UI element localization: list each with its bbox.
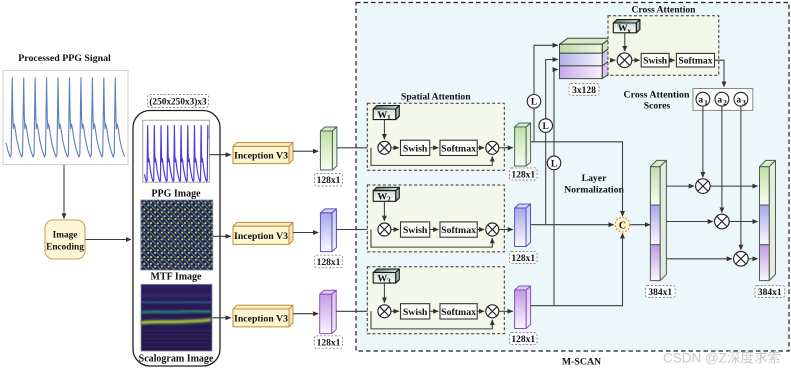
svg-text:W: W [377, 273, 387, 284]
svg-text:Normalization: Normalization [564, 185, 624, 196]
svg-text:Cross Attention: Cross Attention [631, 5, 696, 16]
svg-text:128x1: 128x1 [317, 176, 341, 186]
svg-text:Inception V3: Inception V3 [234, 314, 288, 325]
block Swish (attention 1) [401, 140, 430, 155]
svg-text:Softmax: Softmax [441, 225, 476, 236]
svg-text:128x1: 128x1 [317, 258, 341, 268]
svg-text:Swish: Swish [403, 225, 428, 236]
feature bar F3 (purple 128x1) [320, 290, 337, 333]
block Inception V3 (1) [233, 143, 293, 164]
stacked tensor 3x128 [560, 38, 611, 78]
svg-text:Softmax: Softmax [678, 56, 712, 67]
block Swish (cross attention) [641, 53, 669, 67]
wire L3 to stack slab 3 [554, 70, 558, 156]
score a3 [734, 92, 748, 107]
weight box W1 [373, 106, 399, 120]
wire Scalogram Image to Inception V3 (3) [213, 317, 231, 319]
svg-text:Image: Image [53, 231, 78, 241]
label 128x1 (A3) [510, 333, 538, 345]
spatial attention block 1 container [367, 103, 504, 170]
svg-text:128x1: 128x1 [511, 335, 535, 345]
wire concat C to fused bar [630, 224, 650, 226]
wire Swish to Softmax (block 2) [430, 229, 439, 231]
svg-text:C: C [619, 220, 626, 231]
block Softmax (cross attention) [676, 53, 714, 67]
weight box Wx [613, 20, 640, 33]
multiplier 2 (block 3) [486, 305, 499, 318]
wire A1 output to concat C (top route) [527, 142, 623, 216]
block Swish (attention 3) [401, 304, 430, 319]
wire fused bar seg2 to multiplier M2 [663, 221, 713, 223]
weight box W3 [373, 269, 399, 283]
label (250x250x3)x3 [148, 95, 209, 108]
riser A3 to L3 [553, 170, 555, 306]
svg-text:x: x [627, 26, 631, 35]
svg-text:2: 2 [723, 98, 727, 107]
multiplier 1 (block 2) [378, 223, 391, 236]
wire A3 output to concat C (bottom route) [527, 233, 623, 305]
svg-text:1: 1 [387, 113, 391, 122]
linear transform L1 [527, 95, 541, 109]
linear transform L2 [539, 119, 553, 133]
wire Softmax to multiplier 2 (block 1) [477, 147, 484, 149]
svg-text:3x128: 3x128 [572, 86, 596, 96]
svg-text:W: W [377, 110, 387, 121]
wire L2 to stack slab 2 [546, 60, 558, 119]
weight box W2 [373, 187, 399, 201]
wire Wx to cross multiplier [624, 33, 626, 51]
wire PPG Image to Inception V3 (1) [209, 154, 230, 156]
multiplier 2 (block 2) [486, 223, 499, 236]
svg-text:L: L [543, 122, 549, 132]
score a2 [715, 92, 729, 107]
wire Inception V3 (2) to feature bar F2 [293, 232, 318, 234]
svg-text:PPG Image: PPG Image [151, 189, 201, 200]
svg-text:W: W [618, 23, 628, 34]
svg-text:Swish: Swish [403, 307, 428, 318]
svg-text:384x1: 384x1 [758, 288, 782, 298]
MTF Image thumbnail [141, 200, 213, 270]
feature bar F1 (green 128x1) [320, 127, 337, 170]
svg-text:L: L [531, 98, 537, 108]
wire a3 to output multiplier 3 [740, 106, 742, 250]
wire input bypass to second multiplier (block 1) [371, 148, 492, 166]
wire F2 to attention block 2 [336, 229, 376, 231]
svg-text:Softmax: Softmax [441, 143, 476, 154]
spatial attention block 3 container [367, 267, 504, 334]
svg-text:1: 1 [704, 98, 708, 107]
block Softmax (attention 3) [440, 304, 477, 319]
wire multiplier M2 to output bar [729, 221, 757, 223]
wire L1 to stack slab 1 [534, 45, 558, 94]
svg-text:(250x250x3)x3: (250x250x3)x3 [149, 96, 207, 107]
wire input bypass to second multiplier (block 3) [371, 311, 492, 329]
processed PPG signal plot [3, 71, 128, 165]
svg-text:W: W [377, 192, 387, 203]
svg-text:3: 3 [387, 277, 391, 286]
attended bar A2 (blue 128x1) [515, 204, 531, 247]
svg-text:Scores: Scores [644, 101, 671, 112]
wire multiplier to Swish (block 3) [391, 310, 399, 312]
svg-text:CSDN @Z深度求索: CSDN @Z深度求索 [663, 351, 781, 366]
feature bar F2 (blue 128x1) [320, 209, 336, 252]
wire plot to Image Encoding [63, 165, 65, 219]
svg-text:Swish: Swish [403, 143, 428, 154]
svg-text:128x1: 128x1 [317, 338, 341, 348]
multiplier 1 (block 3) [378, 305, 391, 318]
wire Swish to Softmax (block 3) [430, 310, 439, 312]
wire multiplier to Swish (block 2) [391, 229, 399, 231]
wire a1 to output multiplier 1 [702, 106, 704, 177]
wire W2 to multiplier [383, 201, 385, 221]
svg-text:Scalogram Image: Scalogram Image [139, 354, 214, 365]
wire attention 1 to bar A1 [499, 147, 513, 149]
wire MTF Image to Inception V3 (2) [213, 235, 231, 237]
block Swish (attention 2) [401, 222, 430, 237]
weighted output bar 384x1 (right) [760, 160, 776, 280]
wire Softmax to attention scores box [715, 60, 725, 87]
label 128x1 (F1) [315, 174, 343, 187]
multiplier 2 (block 1) [486, 141, 499, 154]
linear transform L3 [547, 156, 561, 170]
Scalogram Image thumbnail [141, 284, 213, 351]
label 128x1 (A1) [510, 168, 538, 180]
label 128x1 (F2) [315, 255, 343, 268]
wire Swish to Softmax (cross attention) [669, 59, 675, 61]
riser A1 to L1 [533, 108, 535, 142]
wire multiplier M1 to output bar [710, 185, 757, 187]
svg-text:Layer: Layer [582, 173, 607, 184]
svg-text:3: 3 [742, 98, 746, 107]
svg-text:128x1: 128x1 [511, 170, 535, 180]
wire A2 output to concat C (middle route) [527, 224, 614, 226]
wire attention 2 to bar A2 [499, 229, 513, 231]
wire W3 to multiplier [383, 283, 385, 303]
svg-text:a: a [698, 96, 703, 106]
label 128x1 (A2) [510, 252, 538, 264]
wire multiplier to Swish (block 1) [391, 147, 399, 149]
multiplier 1 (block 1) [378, 141, 391, 154]
svg-text:Inception V3: Inception V3 [234, 231, 288, 242]
wire Image Encoding to image stack [86, 239, 132, 241]
wire fused bar seg3 to multiplier M3 [663, 258, 732, 260]
svg-text:Softmax: Softmax [441, 307, 476, 318]
wire Softmax to multiplier 2 (block 3) [477, 310, 484, 312]
wire F3 to attention block 3 [336, 310, 376, 312]
output multiplier M3 [734, 251, 749, 266]
svg-text:Processed PPG Signal: Processed PPG Signal [18, 53, 111, 64]
wire cross multiplier to Swish [632, 59, 640, 61]
attended bar A3 (purple 128x1) [515, 286, 531, 329]
svg-text:Inception V3: Inception V3 [234, 151, 288, 162]
block Image Encoding [45, 220, 85, 259]
wire Inception V3 (3) to feature bar F3 [293, 313, 318, 315]
block Inception V3 (2) [233, 222, 293, 244]
svg-text:Swish: Swish [643, 56, 668, 67]
block Inception V3 (3) [233, 305, 293, 327]
wire F1 to attention block 1 [337, 147, 376, 149]
svg-text:Cross Attention: Cross Attention [624, 90, 690, 101]
image stack container [133, 111, 220, 367]
label 128x1 (F3) [315, 336, 343, 349]
concat node C [615, 217, 630, 232]
output multiplier M1 [696, 179, 711, 194]
label 384x1 (right) [755, 286, 785, 298]
label 3x128 [569, 84, 599, 96]
cross attention container [608, 16, 719, 75]
fused feature bar 384x1 (left) [650, 160, 666, 280]
svg-text:a: a [717, 96, 722, 106]
svg-text:128x1: 128x1 [511, 254, 535, 264]
wire stack to cross multiplier [611, 59, 616, 61]
wire W1 to multiplier [383, 120, 385, 140]
spatial attention block 2 container [367, 185, 504, 252]
svg-text:L: L [551, 159, 557, 169]
cross attention multiplier [617, 53, 632, 68]
wire input bypass to second multiplier (block 2) [371, 230, 492, 248]
wire Inception V3 (1) to feature bar F1 [293, 150, 318, 152]
attended bar A1 (green 128x1) [515, 123, 531, 166]
svg-text:2: 2 [387, 195, 391, 204]
label 384x1 (left) [646, 286, 676, 298]
block Softmax (attention 2) [440, 222, 477, 237]
score a1 [696, 92, 710, 107]
svg-text:Encoding: Encoding [46, 243, 84, 253]
output multiplier M2 [715, 214, 730, 229]
wire Swish to Softmax (block 1) [430, 147, 439, 149]
wire a2 to output multiplier 2 [721, 106, 723, 212]
svg-text:MTF Image: MTF Image [150, 272, 202, 283]
wire multiplier M3 to output bar [748, 258, 757, 260]
block Softmax (attention 1) [440, 140, 477, 155]
wire attention 3 to bar A3 [499, 310, 513, 312]
wire fused bar seg1 to multiplier M1 [663, 185, 694, 187]
M-SCAN dashed container [356, 3, 789, 352]
svg-text:384x1: 384x1 [648, 288, 672, 298]
svg-text:a: a [736, 96, 741, 106]
attention scores box [693, 89, 753, 111]
PPG Image thumbnail [143, 120, 210, 182]
wire Softmax to multiplier 2 (block 2) [477, 229, 484, 231]
svg-text:Spatial Attention: Spatial Attention [401, 91, 471, 102]
riser A2 to L2 [545, 133, 547, 225]
svg-text:M-SCAN: M-SCAN [562, 357, 601, 368]
